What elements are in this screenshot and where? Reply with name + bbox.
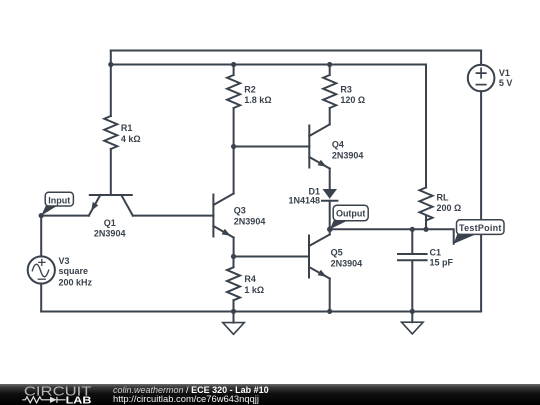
wire R2 node to Q4 base	[234, 146, 310, 148]
node dot Output	[327, 227, 333, 233]
ground symbol below R4	[233, 311, 235, 322]
V3 minus sign	[38, 278, 45, 280]
svg-text:RL: RL	[437, 193, 449, 203]
capacitor C1	[398, 229, 427, 311]
resistor R1	[104, 116, 117, 149]
svg-text:200 kHz: 200 kHz	[59, 277, 93, 287]
arrowhead Q1 emitter	[91, 202, 98, 211]
V1 minus sign	[476, 84, 485, 86]
node dot Q5 emitter rail	[327, 309, 332, 314]
node dot C1 top	[410, 227, 415, 232]
svg-text:2N3904: 2N3904	[332, 150, 364, 160]
svg-text:2N3904: 2N3904	[331, 258, 363, 268]
arrowhead Q4 emitter	[318, 160, 327, 167]
logo resistor zigzag	[22, 397, 50, 403]
flag Output	[330, 205, 368, 229]
flag Input	[41, 192, 73, 215]
flag TestPoint	[454, 220, 504, 244]
svg-text:R2: R2	[244, 85, 256, 95]
svg-text:1N4148: 1N4148	[288, 196, 320, 206]
transistor Q4	[308, 126, 310, 168]
wire V3 bottom lead	[40, 284, 42, 312]
svg-text:2N3904: 2N3904	[234, 216, 266, 226]
svg-text:http://circuitlab.com/ce76w643: http://circuitlab.com/ce76w643nqqjj	[113, 393, 259, 404]
svg-text:Q3: Q3	[234, 206, 246, 216]
wire Q3 emitter node to Q5 base	[234, 256, 310, 258]
svg-text:TestPoint: TestPoint	[459, 223, 502, 233]
ground symbol below C1	[411, 311, 413, 322]
svg-text:Q5: Q5	[331, 248, 343, 258]
svg-text:1 kΩ: 1 kΩ	[244, 285, 264, 295]
svg-text:C1: C1	[430, 247, 442, 257]
resistor RL	[420, 65, 433, 230]
svg-text:200 Ω: 200 Ω	[437, 203, 462, 213]
wire Q5 emitter to ground rail	[329, 279, 331, 312]
wire D1 cathode to Output node	[329, 201, 331, 230]
node dot R2 bottom / Q4 base	[231, 144, 236, 149]
wire R1 column top	[110, 51, 112, 117]
svg-text:1.8 kΩ: 1.8 kΩ	[244, 95, 271, 105]
node dot R4 bottom rail	[231, 309, 236, 314]
node dot Input	[39, 213, 44, 218]
svg-text:Q4: Q4	[332, 140, 344, 150]
svg-text:4 kΩ: 4 kΩ	[121, 134, 141, 144]
svg-text:120 Ω: 120 Ω	[340, 95, 365, 105]
svg-text:5 V: 5 V	[499, 78, 513, 88]
transistor Q3	[212, 195, 214, 237]
svg-text:2N3904: 2N3904	[94, 228, 126, 238]
wire Output node to TestPoint	[330, 229, 454, 244]
source V1 circle	[468, 65, 495, 92]
wire Q3 emitter down to R4 node	[233, 238, 235, 257]
diode D1 cathode bar	[322, 200, 337, 202]
node dot RL bottom	[423, 227, 428, 232]
svg-text:LAB: LAB	[66, 394, 92, 405]
svg-text:square: square	[59, 266, 89, 276]
V3 plus sign	[39, 259, 45, 265]
wire Q1 collector to Q3 base	[133, 215, 214, 217]
wire supply rail to R2 R3 RL	[111, 64, 426, 66]
resistor R2	[227, 65, 240, 147]
logo diode symbol	[50, 397, 57, 403]
svg-text:V1: V1	[499, 68, 510, 78]
transistor Q5	[308, 236, 310, 278]
resistor R4	[227, 257, 240, 312]
diode D1 triangle	[323, 189, 338, 199]
wire V3 top lead	[40, 216, 42, 257]
wire Q1 emitter to Input node	[41, 215, 89, 217]
arrowhead Q5 emitter	[318, 270, 327, 277]
V3 sine symbol	[32, 264, 48, 277]
wire V1 top lead	[480, 51, 482, 65]
resistor R3	[323, 65, 336, 125]
transistor Q1	[90, 194, 132, 196]
wire Q4 emitter to D1 anode	[329, 169, 331, 190]
node dot R2 top	[231, 62, 236, 67]
wire V1 bottom lead	[480, 91, 482, 311]
source V3 circle	[28, 256, 55, 283]
node dot C1 bottom rail	[410, 309, 415, 314]
svg-text:R3: R3	[340, 85, 352, 95]
svg-text:R4: R4	[244, 274, 256, 284]
svg-text:V3: V3	[59, 256, 70, 266]
node dot R3 top	[327, 62, 332, 67]
svg-text:R1: R1	[121, 123, 133, 133]
footer bar	[0, 384, 540, 405]
V1 plus sign	[476, 68, 485, 77]
wire Q3 collector up to R2 node	[233, 147, 235, 194]
svg-text:15 pF: 15 pF	[430, 257, 454, 267]
arrowhead Q3 emitter	[222, 229, 231, 236]
node dot Q3 emitter / R4 / Q5 base	[231, 254, 236, 259]
wire bottom ground rail	[41, 311, 481, 313]
svg-text:Q1: Q1	[104, 218, 116, 228]
svg-text:Output: Output	[336, 209, 366, 219]
wire top rail V1+	[111, 50, 481, 52]
node dot R1 top junction	[108, 62, 113, 67]
wire R1 bottom lead to Q1 base	[110, 149, 112, 195]
wire Q5 collector to Output node	[329, 229, 331, 234]
svg-text:Input: Input	[48, 196, 70, 206]
